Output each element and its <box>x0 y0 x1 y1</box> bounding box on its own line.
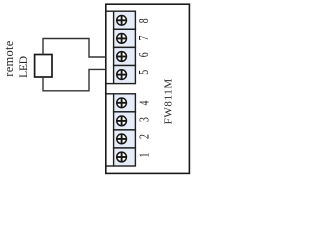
svg-text:1: 1 <box>136 153 152 158</box>
screw terminal 2 <box>117 134 127 144</box>
terminal group 1-4 cells <box>114 94 136 166</box>
group 1-4 mounting tabs to block edge <box>106 93 114 95</box>
svg-text:remote: remote <box>2 40 16 76</box>
svg-text:2: 2 <box>136 134 152 139</box>
screw terminal 4 <box>117 98 127 108</box>
terminal block FW811M outline <box>106 4 190 173</box>
screw terminal 6 <box>117 52 127 62</box>
svg-text:7: 7 <box>135 36 151 41</box>
terminal group 5-8 cells <box>114 11 136 83</box>
screw terminal 8 <box>117 15 127 25</box>
wire from LED top to terminal 6 <box>43 39 106 58</box>
svg-text:FW811M: FW811M <box>162 79 174 125</box>
svg-text:8: 8 <box>135 18 151 23</box>
LED component box <box>35 55 52 78</box>
group 5-8 mounting tabs to block edge <box>106 10 114 12</box>
svg-text:4: 4 <box>136 101 152 106</box>
screw terminal 7 <box>117 34 127 44</box>
svg-text:LED: LED <box>18 56 30 78</box>
screw terminal 3 <box>117 116 127 126</box>
screw terminal 5 <box>117 70 127 80</box>
svg-text:6: 6 <box>135 52 151 57</box>
svg-text:3: 3 <box>136 117 152 122</box>
wire from LED bottom to terminal 5 <box>43 69 106 90</box>
screw terminal 1 <box>117 152 127 162</box>
svg-text:5: 5 <box>135 70 151 75</box>
